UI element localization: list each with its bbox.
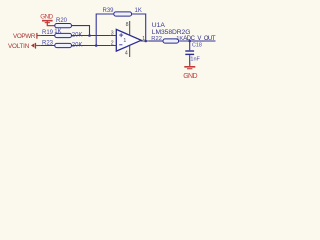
- svg-text:GND: GND: [40, 13, 53, 20]
- pin 1 output: [141, 40, 149, 42]
- wire R20 right lead down to +input node: [72, 26, 90, 36]
- svg-text:VOPWR: VOPWR: [13, 33, 36, 40]
- svg-text:R22: R22: [151, 36, 162, 42]
- svg-text:1nF: 1nF: [190, 57, 200, 63]
- port VOLTIN: [8, 43, 41, 50]
- svg-text:R39: R39: [103, 8, 115, 14]
- resistor R19: [42, 30, 82, 38]
- svg-text:20K: 20K: [72, 42, 83, 48]
- op-amp U1A LM358DR2G: [110, 21, 190, 57]
- wire output row: [149, 40, 163, 42]
- svg-text:VOLTIN: VOLTIN: [8, 43, 30, 50]
- pin 4 V-: [129, 45, 131, 57]
- ground GND (bottom, for C18): [183, 63, 197, 80]
- svg-text:LM358DR2G: LM358DR2G: [152, 29, 191, 36]
- pin 3: [110, 35, 116, 37]
- wire row3 (inverting input net): [41, 45, 111, 47]
- svg-text:R20: R20: [56, 18, 68, 24]
- svg-text:2: 2: [111, 40, 114, 46]
- svg-text:3: 3: [111, 30, 114, 36]
- resistor R39: [103, 8, 142, 16]
- ground GND (top, for R20): [40, 13, 54, 25]
- svg-text:ADC_V_OUT: ADC_V_OUT: [183, 36, 216, 42]
- resistor R20: [54, 18, 71, 35]
- svg-text:1K: 1K: [135, 8, 142, 14]
- wire / net ADC_V_OUT: [179, 40, 216, 42]
- wire feedback loop: node to R39 to output: [96, 14, 146, 46]
- svg-text:20K: 20K: [72, 33, 83, 39]
- node dot: R20 joins +input row: [88, 34, 91, 37]
- node dot: feedback joins output: [144, 40, 147, 43]
- svg-text:1: 1: [123, 38, 126, 44]
- svg-text:R23: R23: [42, 40, 54, 46]
- svg-text:GND: GND: [183, 73, 197, 80]
- svg-text:4: 4: [125, 50, 128, 56]
- svg-text:C18: C18: [192, 43, 202, 49]
- port VOPWR: [13, 33, 41, 40]
- svg-text:R19: R19: [42, 30, 54, 36]
- pin 8 V+: [129, 21, 131, 35]
- capacitor C18: [185, 41, 202, 65]
- wire row2 (non-inverting input net): [41, 35, 111, 37]
- node dot: feedback joins -input row: [95, 44, 98, 47]
- svg-text:8: 8: [126, 22, 129, 28]
- node dot: C18 tap: [188, 40, 191, 43]
- resistor R22: [151, 36, 183, 43]
- resistor R23: [42, 40, 82, 48]
- pin 2: [110, 45, 116, 47]
